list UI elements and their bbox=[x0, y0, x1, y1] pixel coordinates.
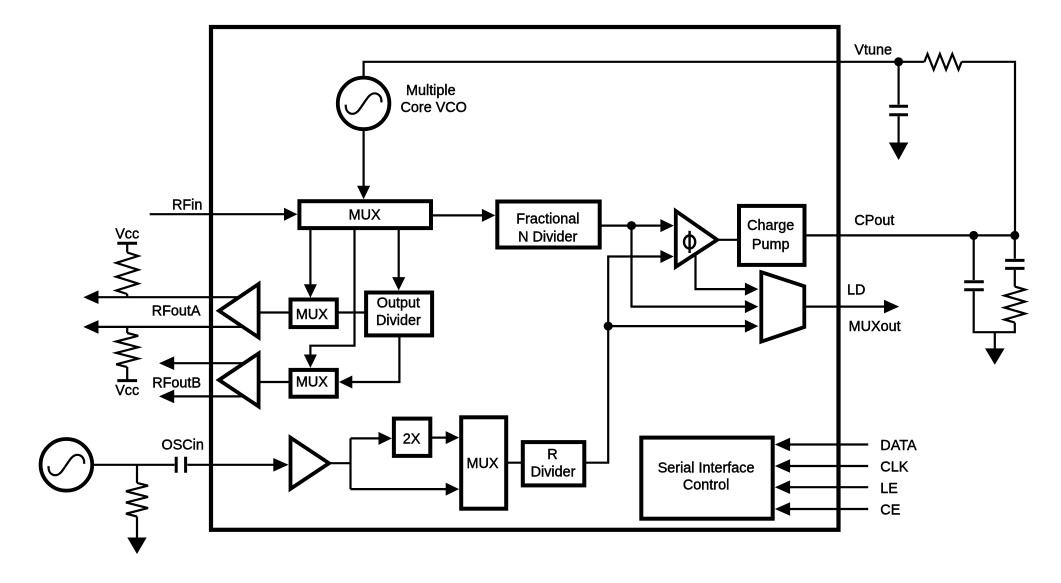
svg-text:DATA: DATA bbox=[880, 438, 917, 454]
svg-text:Control: Control bbox=[683, 478, 729, 494]
wire 2X to MUX3 bbox=[430, 431, 459, 444]
oscillator source symbol bbox=[41, 439, 93, 491]
svg-text:Vcc: Vcc bbox=[115, 383, 139, 399]
svg-text:LE: LE bbox=[880, 481, 898, 497]
wire R divider branch to LD mux bbox=[608, 320, 758, 333]
node N divider junction bbox=[627, 221, 636, 230]
resistor R2 loop filter bbox=[1005, 287, 1026, 333]
wire OSCin to buffer bbox=[187, 458, 288, 472]
capacitor C-OSCin (series) bbox=[176, 457, 185, 473]
block Output Divider bbox=[366, 293, 432, 336]
svg-text:Core VCO: Core VCO bbox=[401, 100, 467, 116]
power Vcc top bar bbox=[117, 242, 137, 245]
wire phase detector to charge pump bbox=[717, 239, 739, 241]
block Serial Interface Control bbox=[641, 438, 772, 519]
svg-text:MUX: MUX bbox=[296, 307, 328, 323]
svg-text:N Divider: N Divider bbox=[518, 230, 577, 246]
svg-text:R: R bbox=[547, 447, 557, 463]
amplifier B (RFoutB) bbox=[219, 353, 259, 406]
phase detector U-phi bbox=[676, 211, 717, 267]
wire RFoutB- output bbox=[159, 390, 245, 404]
svg-text:Charge: Charge bbox=[747, 218, 794, 234]
svg-text:2X: 2X bbox=[403, 432, 421, 448]
power Vcc bottom bar bbox=[117, 379, 137, 382]
wire MUX1 to Output Divider bbox=[337, 311, 366, 313]
chip boundary box bbox=[211, 27, 839, 530]
svg-text:OSCin: OSCin bbox=[162, 437, 204, 453]
block 2X doubler bbox=[394, 419, 430, 456]
wire CLK input bbox=[775, 459, 868, 473]
svg-text:RFoutA: RFoutA bbox=[152, 304, 201, 320]
wire loop filter bottom rail bbox=[973, 331, 1016, 333]
svg-text:MUX: MUX bbox=[467, 456, 499, 472]
wire RFin input bbox=[150, 208, 298, 221]
wire N divider branch to LD mux bbox=[632, 226, 759, 314]
wire RFoutB+ output bbox=[159, 356, 245, 370]
ground below C-Vtune bbox=[889, 143, 908, 161]
wire MUX drop 2 to MUX B bbox=[304, 228, 355, 368]
wire VCO to MUX bbox=[357, 130, 370, 199]
svg-text:Vcc: Vcc bbox=[115, 227, 139, 243]
wire DATA input bbox=[775, 438, 868, 452]
resistor R-Vtune (horizontal) bbox=[924, 54, 961, 70]
ground OSC shunt bbox=[127, 538, 146, 555]
wire CE input bbox=[775, 502, 868, 516]
wire splitter to 2X bbox=[351, 432, 392, 445]
wire RFoutA- output bbox=[83, 320, 245, 334]
wire RFoutA+ output bbox=[83, 290, 245, 304]
node Vtune junction bbox=[894, 57, 903, 66]
node CPout junction 2 bbox=[1010, 231, 1019, 240]
capacitor C1 loop filter bbox=[964, 235, 984, 332]
svg-text:MUX: MUX bbox=[296, 375, 328, 391]
svg-text:Output: Output bbox=[377, 296, 420, 312]
wire LE input bbox=[775, 480, 868, 494]
wire CPout bbox=[805, 234, 1016, 236]
capacitor C2 loop filter bbox=[1005, 235, 1024, 286]
wire MUX1 to amplifier A bbox=[256, 311, 291, 313]
wire MUX drop 1 to MUX A bbox=[304, 228, 317, 298]
wire phase detector to LD mux bbox=[696, 250, 759, 296]
amplifier A (RFoutA) bbox=[219, 284, 259, 337]
resistor R-OSC shunt bbox=[126, 465, 148, 538]
wire buffer to splitter bbox=[329, 438, 351, 489]
wire Fractional N Divider to phase detector bbox=[600, 219, 674, 232]
wire Vtune resistor to right rail bbox=[962, 62, 1015, 236]
amplifier C (reference buffer) bbox=[291, 438, 330, 489]
wire MUX drop 3 to Output Divider bbox=[392, 228, 405, 291]
resistor R-VccA (pull-up) bbox=[116, 243, 138, 297]
block MUX1 bbox=[291, 300, 337, 328]
VCO source symbol bbox=[338, 78, 390, 130]
wire R Divider feedback up to phase detector bbox=[584, 250, 674, 463]
block MUX2 bbox=[291, 370, 337, 397]
svg-text:MUXout: MUXout bbox=[849, 319, 901, 335]
wire Output Divider to MUX2 bbox=[339, 335, 400, 388]
svg-text:Divider: Divider bbox=[531, 465, 576, 481]
block MUX3 bbox=[461, 417, 506, 508]
wire OSC source to OSCin bbox=[93, 464, 175, 466]
svg-text:Divider: Divider bbox=[376, 313, 421, 329]
svg-text:RFin: RFin bbox=[172, 198, 202, 214]
wire splitter to MUX3 bbox=[351, 483, 460, 496]
wire MUX3 to R Divider bbox=[506, 462, 523, 464]
mux LD/MUXout trapezoid bbox=[761, 272, 804, 341]
svg-text:CE: CE bbox=[880, 503, 900, 519]
svg-text:Serial Interface: Serial Interface bbox=[658, 461, 755, 477]
svg-text:MUX: MUX bbox=[349, 207, 381, 223]
svg-text:CPout: CPout bbox=[854, 213, 894, 229]
block Charge Pump bbox=[739, 206, 805, 265]
ground loop filter bbox=[985, 332, 1005, 365]
capacitor C-Vtune bbox=[889, 62, 908, 143]
block Fractional N Divider bbox=[497, 202, 599, 248]
svg-text:Pump: Pump bbox=[752, 237, 790, 253]
svg-text:CLK: CLK bbox=[880, 460, 908, 476]
node R divider junction bbox=[604, 322, 613, 331]
wire MUX2 to amplifier B bbox=[256, 381, 291, 383]
wire VCO tune line to Vtune bbox=[364, 62, 925, 77]
block R Divider bbox=[523, 442, 585, 485]
wire MUX to Fractional N Divider bbox=[431, 209, 495, 222]
svg-text:Multiple: Multiple bbox=[406, 83, 456, 99]
svg-text:RFoutB: RFoutB bbox=[152, 376, 201, 392]
svg-text:LD: LD bbox=[847, 283, 865, 299]
node CPout junction 1 bbox=[969, 231, 978, 240]
block MUX main bbox=[299, 201, 431, 228]
wire LD/MUXout output bbox=[804, 300, 899, 314]
resistor R-VccB (pull-down) bbox=[116, 327, 138, 381]
svg-text:Fractional: Fractional bbox=[516, 211, 579, 227]
svg-text:Vtune: Vtune bbox=[854, 43, 892, 59]
